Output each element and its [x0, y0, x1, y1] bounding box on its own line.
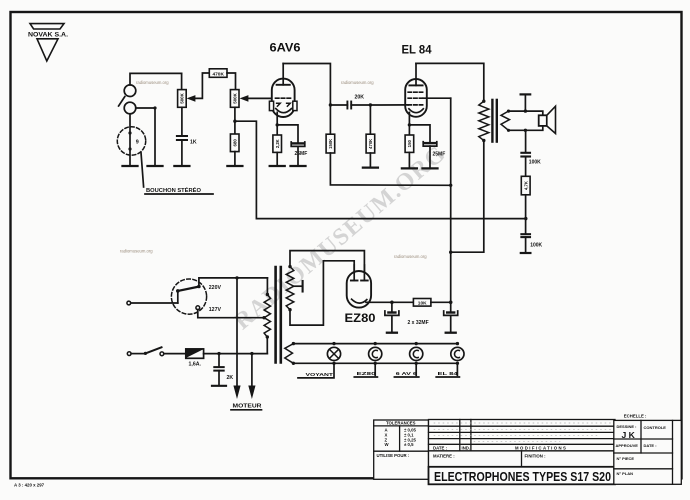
svg-text:150: 150: [407, 139, 412, 147]
svg-text:N° PLAN: N° PLAN: [617, 471, 634, 476]
heater EZ80: [369, 342, 382, 376]
svg-text:DATE :: DATE :: [644, 443, 657, 448]
svg-text:2,2K: 2,2K: [275, 139, 280, 148]
svg-text:UTILISE POUR :: UTILISE POUR :: [377, 453, 410, 458]
svg-text:1K: 1K: [190, 140, 197, 146]
svg-text:N° PIECE: N° PIECE: [617, 456, 635, 461]
svg-text:127V: 127V: [209, 307, 222, 313]
node 220V: [199, 276, 268, 294]
tube EZ80 envelope: [347, 271, 371, 308]
svg-text:FINITION :: FINITION :: [525, 454, 547, 459]
tube EL84 envelope: [405, 79, 427, 117]
wire HT top to EZ80 anode: [290, 251, 364, 281]
connector plug (bouchon) dashed circle: [117, 127, 145, 155]
label MOTEUR: [233, 404, 262, 410]
voltage selector lever: [176, 285, 201, 293]
svg-text:radiomuseum.org: radiomuseum.org: [341, 80, 374, 85]
grid node junction: [369, 103, 372, 106]
title box: [429, 467, 616, 485]
ground: [402, 167, 417, 169]
resistor 150K plate load: [326, 105, 451, 185]
svg-text:CONTROLE: CONTROLE: [644, 425, 667, 430]
svg-text:A 3 : 420 x 297: A 3 : 420 x 297: [14, 483, 45, 488]
svg-text:EZ80: EZ80: [345, 311, 376, 325]
chassis terminal above speaker: [521, 94, 531, 111]
resistor 10K filter: [413, 299, 450, 307]
ground: [148, 165, 163, 167]
voltage selector dashed circle: [171, 279, 206, 314]
svg-text:NOVAK S.A.: NOVAK S.A.: [28, 32, 68, 39]
speaker wires: [509, 109, 543, 132]
big diagonal watermark: [230, 140, 452, 335]
wire plate to node A: [283, 64, 330, 106]
svg-text:220V: 220V: [209, 285, 222, 291]
wire EL84 plate to OT: [416, 63, 484, 101]
svg-text:470K: 470K: [212, 71, 224, 77]
svg-text:25MF: 25MF: [433, 152, 446, 158]
leader line to label: [141, 153, 144, 188]
svg-text:MATIERE :: MATIERE :: [433, 454, 455, 459]
svg-text:radiomuseum.org: radiomuseum.org: [136, 80, 169, 85]
svg-text:J K: J K: [622, 430, 636, 440]
tube 6AV6 label: [270, 43, 301, 55]
power transformer primary winding: [264, 293, 270, 354]
EZ80 anode 1: [351, 265, 358, 281]
svg-text:9: 9: [136, 140, 139, 146]
wire pickup right to ground: [136, 106, 157, 164]
resistor 470K (coupling top): [209, 69, 235, 90]
fuse 1,6A: [186, 349, 267, 368]
6AV6 grid dashes: [276, 97, 292, 99]
wire pickup bottom through plug: [129, 114, 131, 165]
6AV6 plate: [277, 64, 290, 85]
svg-text:MODIFICATIONS: MODIFICATIONS: [515, 445, 567, 450]
power transformer core: [276, 267, 281, 363]
ground: [270, 165, 285, 167]
pickup cartridge coil top: [124, 85, 136, 97]
svg-text:DESSINE :: DESSINE :: [617, 424, 637, 429]
label BOUCHON STEREO: [146, 186, 202, 194]
wire P2 bottom junction: [233, 107, 236, 134]
svg-text:ELECTROPHONES TYPES S17 S20: ELECTROPHONES TYPES S17 S20: [434, 470, 611, 484]
svg-text:100K: 100K: [530, 243, 542, 249]
6AV6 cathode: [276, 109, 292, 127]
stylus mark: [119, 97, 125, 106]
resistor 680: [230, 134, 239, 165]
potentiometer 500K (P1): [178, 73, 210, 107]
EL84 g2 wire to B+: [423, 98, 452, 303]
OT primary winding: [479, 100, 489, 143]
6AV6 diode plates: [277, 103, 291, 106]
svg-text:± 0,5: ± 0,5: [404, 442, 414, 447]
svg-text:1,6A.: 1,6A.: [189, 362, 202, 368]
pickup cartridge coil bottom: [124, 102, 136, 114]
heater rails: [293, 344, 457, 364]
tube 6AV6 envelope: [272, 79, 295, 117]
heater 6AV6: [410, 342, 423, 376]
svg-text:10K: 10K: [418, 300, 427, 306]
svg-text:ECHELLE :: ECHELLE :: [624, 414, 647, 419]
svg-text:radiomuseum.org: radiomuseum.org: [120, 249, 153, 254]
capacitor 2K line filter: [212, 354, 233, 386]
NOVAK S.A. logo: [28, 24, 68, 61]
motor feed wire 1: [233, 278, 240, 399]
capacitor 100K lower: [521, 219, 543, 253]
node A junction: [329, 103, 332, 106]
EL84 cathode: [408, 109, 424, 127]
capacitor 20K coupling: [330, 95, 370, 109]
6AV6 side tabs: [269, 101, 297, 110]
tube EL84 label: [402, 45, 433, 57]
wire OT bottom to B+ node: [451, 141, 484, 253]
pilot lamp VOYANT: [327, 342, 340, 376]
OT core: [492, 100, 496, 142]
svg-text:4,7K: 4,7K: [523, 181, 528, 190]
svg-text:IND.: IND.: [462, 446, 471, 451]
svg-text:DATE :: DATE :: [433, 446, 448, 451]
small watermark texts: [120, 80, 427, 259]
svg-text:2 x 32MF: 2 x 32MF: [408, 320, 429, 326]
svg-text:radiomuseum.org: radiomuseum.org: [394, 254, 427, 259]
ground: [123, 165, 138, 167]
svg-text:2K: 2K: [227, 375, 234, 381]
ground: [227, 165, 242, 167]
ground: [291, 165, 306, 167]
matiere finition row: [429, 451, 616, 467]
svg-text:500K: 500K: [232, 92, 237, 103]
mains switch: [144, 347, 186, 355]
filter capacitor 32MF no.1: [385, 301, 399, 333]
EL84 plate: [409, 63, 422, 85]
svg-text:150K: 150K: [328, 139, 333, 149]
speaker: [539, 106, 556, 133]
EL84 g1 wire: [370, 104, 408, 106]
label 2 x 32MF: [408, 320, 429, 326]
wire pickup top to rail: [130, 73, 182, 85]
mains terminal upper: [127, 291, 178, 305]
svg-text:6AV6: 6AV6: [270, 43, 301, 55]
svg-text:TOLERANCES: TOLERANCES: [386, 421, 416, 426]
svg-text:470K: 470K: [368, 139, 373, 149]
ground: [423, 167, 438, 169]
capacitor 100K upper: [521, 130, 541, 176]
OT secondary winding: [501, 110, 510, 132]
HT center tap terminal: [294, 281, 303, 292]
HT secondary winding: [286, 265, 294, 312]
heater winding: [285, 342, 295, 365]
filter capacitor 32MF no.2: [444, 301, 458, 333]
svg-text:100K: 100K: [529, 159, 541, 165]
svg-text:20K: 20K: [355, 95, 365, 101]
node 127V: [196, 306, 266, 320]
capacitor 25MF cathode bypass: [277, 125, 307, 165]
EL84 grids g3 g2 g1: [408, 92, 423, 105]
svg-text:EL 84: EL 84: [402, 45, 433, 57]
EZ80 anode 2: [361, 265, 368, 281]
capacitor 25MF EL84 bypass: [409, 125, 445, 167]
resistor 2,2K cathode: [273, 125, 282, 165]
modifications table: [429, 420, 616, 451]
tolerances box: [374, 420, 429, 479]
potentiometer 500K (P2 volume): [230, 90, 271, 108]
tube EZ80 label: [345, 311, 376, 325]
resistor 4,7K: [521, 176, 530, 220]
resistor 150 cathode: [405, 125, 414, 167]
motor feed wire 2: [248, 354, 255, 399]
svg-text:APPROUVE: APPROUVE: [616, 443, 639, 448]
ground: [174, 165, 189, 167]
svg-text:BOUCHON STÉRÉO: BOUCHON STÉRÉO: [146, 186, 202, 194]
mains terminal lower: [127, 352, 144, 356]
heater EL84: [451, 342, 464, 376]
svg-text:500K: 500K: [180, 92, 185, 103]
svg-text:680: 680: [232, 139, 237, 147]
svg-text:MOTEUR: MOTEUR: [233, 404, 262, 410]
capacitor 1K: [177, 107, 197, 164]
ground: [363, 166, 378, 168]
EZ80 cathode: [352, 299, 414, 303]
feedback wire to output divider: [235, 121, 526, 218]
right column: [614, 420, 682, 484]
resistor 470K grid leak: [366, 105, 375, 166]
svg-text:25MF: 25MF: [295, 151, 308, 157]
wire HT bottom to EZ80 anode: [290, 261, 354, 325]
